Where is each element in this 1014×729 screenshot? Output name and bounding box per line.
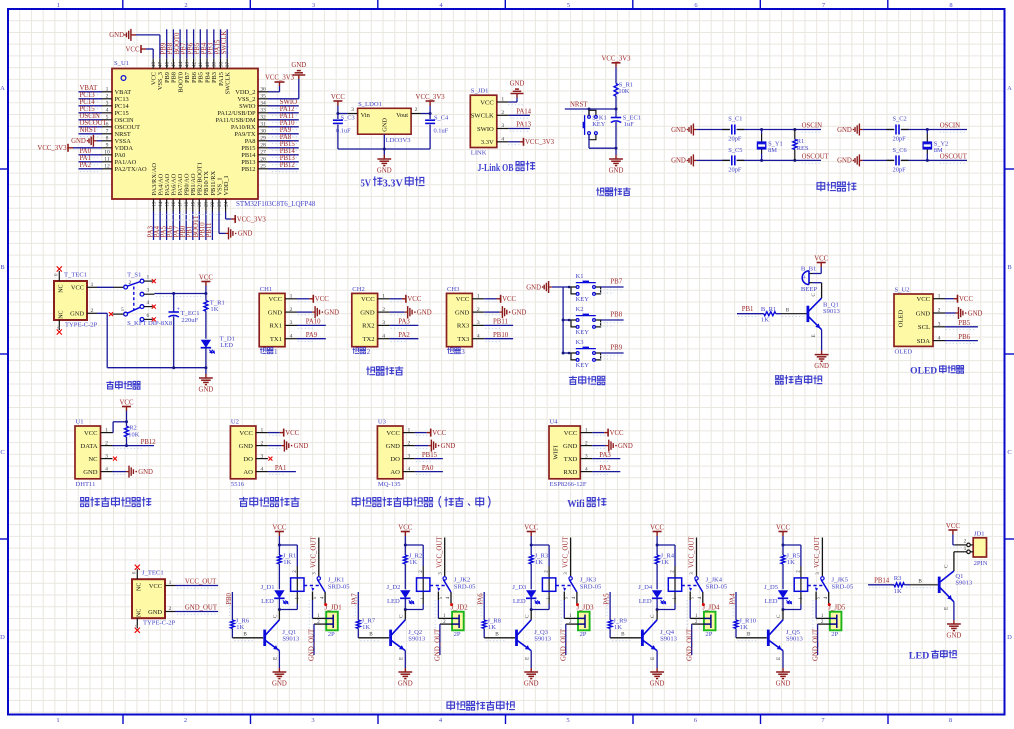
svg-text:22: 22 — [210, 201, 216, 207]
svg-text:1K: 1K — [535, 559, 543, 566]
svg-text:RES: RES — [797, 145, 809, 152]
svg-text:5: 5 — [121, 307, 124, 313]
svg-text:VCC: VCC — [959, 296, 973, 303]
svg-text:5V: 5V — [361, 178, 372, 190]
svg-text:7: 7 — [106, 129, 109, 135]
svg-text:VCC: VCC — [239, 430, 253, 437]
svg-text:E: E — [650, 657, 656, 660]
svg-text:GND: GND — [294, 443, 309, 450]
svg-text:42: 42 — [191, 62, 197, 68]
svg-text:2: 2 — [477, 307, 480, 313]
svg-text:S9013: S9013 — [955, 580, 973, 587]
svg-text:VCC_OUT: VCC_OUT — [311, 536, 318, 568]
svg-text:1K: 1K — [236, 624, 244, 631]
svg-text:VCC: VCC — [315, 296, 329, 303]
svg-text:LDO3V3: LDO3V3 — [386, 137, 412, 144]
svg-text:GND: GND — [71, 138, 86, 145]
svg-text:VCC_3V3: VCC_3V3 — [416, 94, 446, 101]
svg-text:34: 34 — [260, 101, 266, 107]
svg-text:DATA: DATA — [80, 443, 97, 450]
svg-text:PC15: PC15 — [80, 106, 96, 113]
svg-text:MQ-135: MQ-135 — [378, 481, 401, 488]
svg-text:E: E — [273, 657, 279, 660]
svg-text:NC: NC — [59, 284, 65, 292]
svg-text:J_TEC1: J_TEC1 — [142, 570, 164, 577]
svg-text:0.1uF: 0.1uF — [434, 128, 449, 135]
svg-text:40: 40 — [205, 62, 211, 68]
svg-text:3: 3 — [477, 320, 480, 326]
svg-text:3: 3 — [461, 348, 465, 356]
svg-text:E: E — [811, 334, 817, 337]
svg-text:4: 4 — [106, 108, 109, 114]
svg-text:PA0: PA0 — [115, 152, 126, 159]
svg-text:VCC: VCC — [650, 524, 664, 531]
svg-text:VCC: VCC — [564, 430, 578, 437]
svg-text:GND: GND — [671, 158, 686, 165]
svg-text:1: 1 — [274, 348, 278, 356]
svg-text:12: 12 — [104, 164, 110, 170]
svg-text:3: 3 — [106, 101, 109, 107]
svg-text:TX2: TX2 — [363, 336, 375, 343]
svg-text:1: 1 — [57, 2, 60, 9]
svg-text:GND: GND — [814, 363, 829, 370]
svg-text:43: 43 — [185, 62, 191, 68]
svg-text:PB13: PB13 — [280, 155, 296, 162]
svg-text:E: E — [524, 657, 530, 660]
svg-text:CH2: CH2 — [352, 286, 364, 293]
svg-text:32: 32 — [260, 115, 266, 121]
svg-text:GND: GND — [671, 127, 686, 134]
svg-text:VCC_3V3: VCC_3V3 — [237, 216, 267, 223]
svg-text:NRST: NRST — [80, 127, 98, 134]
svg-text:PB14: PB14 — [241, 152, 256, 159]
svg-text:U3: U3 — [378, 419, 387, 426]
svg-text:GND: GND — [83, 469, 98, 476]
svg-text:4: 4 — [261, 466, 264, 472]
svg-text:PA0: PA0 — [422, 465, 434, 472]
svg-text:PA11/USB/DM: PA11/USB/DM — [215, 117, 255, 124]
svg-text:20pF: 20pF — [728, 136, 742, 143]
svg-text:VDD_2: VDD_2 — [235, 89, 255, 96]
svg-text:S_KFT DIP-8X8: S_KFT DIP-8X8 — [127, 320, 173, 327]
svg-text:1: 1 — [408, 427, 411, 433]
svg-text:1K: 1K — [614, 624, 622, 631]
svg-text:2: 2 — [184, 2, 187, 9]
svg-text:PA2/TX/AO: PA2/TX/AO — [115, 166, 147, 173]
svg-text:PA14: PA14 — [516, 109, 531, 116]
svg-text:VDDA: VDDA — [115, 145, 134, 152]
svg-text:C: C — [776, 614, 782, 618]
svg-text:18: 18 — [184, 201, 190, 207]
svg-text:4: 4 — [147, 300, 150, 306]
svg-text:J_JD2: J_JD2 — [451, 604, 469, 611]
svg-text:PB8: PB8 — [610, 312, 622, 319]
svg-text:2P: 2P — [831, 631, 838, 638]
svg-text:2: 2 — [501, 110, 504, 116]
svg-text:VCC_3V3: VCC_3V3 — [265, 75, 295, 82]
svg-text:2: 2 — [261, 440, 264, 446]
svg-text:21: 21 — [204, 201, 210, 207]
svg-text:GND: GND — [837, 127, 852, 134]
svg-text:T_EC1: T_EC1 — [181, 310, 200, 317]
svg-text:PA1/AO: PA1/AO — [115, 159, 137, 166]
svg-text:1: 1 — [261, 427, 264, 433]
svg-text:GND: GND — [199, 386, 214, 393]
svg-text:PB10: PB10 — [493, 332, 509, 339]
svg-text:1K: 1K — [661, 559, 669, 566]
svg-text:1: 1 — [938, 293, 941, 299]
svg-text:GND: GND — [650, 680, 665, 687]
svg-text:AO: AO — [243, 469, 253, 476]
svg-text:45: 45 — [171, 62, 177, 68]
svg-text:15: 15 — [164, 201, 170, 207]
svg-text:GND_OUT: GND_OUT — [812, 628, 819, 661]
svg-text:B_R1: B_R1 — [761, 306, 776, 313]
svg-text:38: 38 — [218, 62, 224, 68]
svg-text:S_C5: S_C5 — [728, 147, 742, 154]
svg-text:2PIN: 2PIN — [974, 560, 988, 567]
svg-text:GND: GND — [148, 609, 162, 616]
svg-text:C: C — [943, 564, 949, 568]
svg-text:3: 3 — [351, 107, 354, 113]
svg-text:AO: AO — [390, 469, 400, 476]
svg-text:4: 4 — [408, 466, 411, 472]
svg-text:GND: GND — [510, 80, 525, 87]
svg-text:PB14: PB14 — [280, 148, 296, 155]
svg-text:VCC_3V3: VCC_3V3 — [601, 56, 631, 63]
svg-text:PA1: PA1 — [80, 155, 91, 162]
svg-text:OSCOUT: OSCOUT — [940, 154, 968, 161]
svg-text:J_D5: J_D5 — [764, 584, 779, 591]
svg-text:8: 8 — [106, 136, 109, 142]
svg-text:S_U2: S_U2 — [895, 287, 910, 294]
svg-text:5: 5 — [566, 717, 569, 724]
svg-text:PA2: PA2 — [80, 162, 92, 169]
svg-text:S_C3: S_C3 — [341, 114, 355, 121]
svg-text:VCC: VCC — [480, 99, 494, 106]
svg-text:J_D3: J_D3 — [512, 584, 527, 591]
svg-text:4: 4 — [938, 335, 941, 341]
svg-text:VCC_OUT: VCC_OUT — [814, 536, 821, 568]
svg-text:GND_OUT: GND_OUT — [435, 628, 442, 661]
svg-text:PB11: PB11 — [493, 319, 508, 326]
svg-text:PB13: PB13 — [241, 159, 255, 166]
svg-text:2P: 2P — [705, 631, 712, 638]
svg-text:SWCLK: SWCLK — [225, 72, 232, 95]
svg-text:J-Link OB: J-Link OB — [478, 162, 514, 174]
svg-text:3: 3 — [585, 453, 588, 459]
svg-text:2: 2 — [184, 717, 187, 724]
svg-text:VCC: VCC — [946, 523, 960, 530]
svg-text:14: 14 — [158, 201, 164, 207]
svg-text:5: 5 — [567, 2, 570, 9]
svg-text:31: 31 — [260, 122, 266, 128]
svg-text:PC15: PC15 — [115, 110, 129, 117]
svg-text:33: 33 — [260, 108, 266, 114]
svg-text:S_C2: S_C2 — [893, 116, 907, 123]
svg-text:4: 4 — [477, 333, 480, 339]
svg-text:S_C6: S_C6 — [893, 147, 907, 154]
svg-text:1K: 1K — [362, 624, 370, 631]
svg-text:VCC_3V3: VCC_3V3 — [37, 145, 67, 152]
svg-text:1: 1 — [105, 427, 108, 433]
svg-text:9: 9 — [106, 143, 109, 149]
svg-text:D: D — [0, 634, 5, 641]
svg-text:SDA: SDA — [917, 338, 930, 345]
svg-text:BEEP: BEEP — [801, 286, 817, 293]
svg-text:PB12: PB12 — [241, 166, 255, 173]
svg-text:U1: U1 — [76, 419, 84, 426]
svg-text:K2: K2 — [576, 306, 584, 313]
svg-text:J_JD4: J_JD4 — [702, 604, 720, 611]
svg-text:1K: 1K — [740, 624, 748, 631]
svg-text:VCC: VCC — [149, 583, 162, 590]
svg-text:GND: GND — [563, 443, 578, 450]
svg-text:6: 6 — [147, 313, 150, 319]
svg-text:STM32F103C8T6_LQFP48: STM32F103C8T6_LQFP48 — [236, 200, 316, 208]
svg-text:1K: 1K — [210, 306, 218, 313]
svg-text:2: 2 — [91, 308, 94, 314]
svg-text:2P: 2P — [580, 631, 587, 638]
svg-text:VCC_3V3: VCC_3V3 — [525, 139, 555, 146]
svg-text:PA12/USB/DP: PA12/USB/DP — [217, 110, 256, 117]
svg-text:13: 13 — [151, 201, 157, 207]
svg-text:J_JD5: J_JD5 — [828, 604, 846, 611]
svg-text:220uF: 220uF — [181, 317, 198, 324]
svg-text:GND_OUT: GND_OUT — [561, 628, 568, 661]
svg-text:VCC: VCC — [407, 296, 421, 303]
svg-text:PB14: PB14 — [874, 578, 890, 585]
svg-text:JD1: JD1 — [974, 530, 985, 537]
svg-text:35: 35 — [260, 94, 266, 100]
svg-text:1: 1 — [91, 282, 94, 288]
svg-text:1: 1 — [585, 427, 588, 433]
svg-text:3: 3 — [312, 2, 315, 9]
svg-text:CH3: CH3 — [447, 286, 460, 293]
svg-text:PA13: PA13 — [516, 122, 531, 129]
svg-text:GND: GND — [272, 680, 287, 687]
svg-text:TX3: TX3 — [457, 336, 470, 343]
svg-text:VCC: VCC — [285, 430, 299, 437]
svg-text:J_D1: J_D1 — [261, 584, 275, 591]
svg-text:4: 4 — [105, 466, 108, 472]
svg-text:LED: LED — [909, 652, 930, 662]
svg-text:1: 1 — [106, 87, 109, 93]
svg-text:GND: GND — [138, 469, 153, 476]
svg-text:OSCIN: OSCIN — [80, 113, 100, 120]
svg-text:VCC_OUT: VCC_OUT — [437, 536, 444, 568]
svg-text:GND: GND — [238, 231, 253, 238]
svg-text:36: 36 — [260, 87, 266, 93]
svg-text:41: 41 — [198, 62, 204, 68]
svg-text:B: B — [918, 579, 922, 585]
svg-text:J_JD3: J_JD3 — [577, 604, 595, 611]
svg-text:47: 47 — [158, 62, 164, 68]
svg-text:VCC: VCC — [916, 296, 930, 303]
svg-text:VCC: VCC — [331, 94, 345, 101]
svg-text:S9013: S9013 — [408, 636, 426, 643]
svg-text:VBAT: VBAT — [115, 89, 132, 96]
svg-text:GND: GND — [916, 310, 931, 317]
svg-text:VCC: VCC — [456, 296, 470, 303]
svg-text:3: 3 — [311, 717, 314, 724]
svg-text:1: 1 — [56, 717, 59, 724]
svg-text:8M: 8M — [934, 147, 943, 154]
svg-text:SWCLK: SWCLK — [471, 113, 494, 120]
svg-text:20pF: 20pF — [728, 166, 742, 173]
svg-text:GND: GND — [239, 443, 254, 450]
svg-text:SWIO: SWIO — [477, 126, 494, 133]
svg-text:1: 1 — [290, 294, 293, 300]
svg-text:PC14: PC14 — [80, 99, 96, 106]
svg-text:GND: GND — [776, 680, 791, 687]
svg-text:28: 28 — [260, 143, 266, 149]
svg-text:SRD-05: SRD-05 — [328, 583, 350, 590]
svg-text:3: 3 — [261, 453, 264, 459]
svg-text:ESP8266-12F: ESP8266-12F — [550, 481, 587, 488]
svg-text:CH1: CH1 — [260, 286, 272, 293]
svg-text:VCC: VCC — [502, 296, 516, 303]
svg-text:1K: 1K — [787, 559, 795, 566]
svg-text:GND: GND — [837, 158, 852, 165]
svg-text:2: 2 — [367, 348, 371, 356]
svg-text:37: 37 — [225, 62, 231, 68]
svg-text:SRD-05: SRD-05 — [580, 583, 602, 590]
svg-text:Vout: Vout — [396, 112, 408, 119]
svg-text:VCC: VCC — [84, 430, 98, 437]
svg-text:2: 2 — [415, 107, 418, 113]
svg-text:2P: 2P — [454, 631, 461, 638]
svg-text:2: 2 — [964, 539, 967, 545]
svg-text:PA2: PA2 — [398, 332, 410, 339]
svg-text:VCC: VCC — [610, 430, 624, 437]
svg-text:GND: GND — [609, 167, 624, 174]
svg-text:B_B1: B_B1 — [801, 265, 816, 272]
svg-text:RXD: RXD — [563, 469, 577, 476]
svg-text:1: 1 — [169, 580, 172, 586]
svg-text:NC: NC — [137, 583, 143, 591]
svg-text:1K: 1K — [409, 559, 417, 566]
svg-text:C: C — [1007, 449, 1011, 456]
svg-text:26: 26 — [260, 157, 266, 163]
svg-text:S9013: S9013 — [823, 308, 841, 315]
svg-text:E: E — [943, 607, 949, 610]
svg-text:PA3: PA3 — [398, 319, 410, 326]
svg-text:S9013: S9013 — [786, 636, 804, 643]
svg-text:TYPE-C-2P: TYPE-C-2P — [143, 620, 176, 627]
svg-text:GND: GND — [524, 680, 539, 687]
svg-text:KEY: KEY — [592, 121, 606, 128]
svg-text:PB15: PB15 — [280, 141, 296, 148]
svg-text:PB12: PB12 — [141, 439, 157, 446]
svg-text:C: C — [398, 614, 404, 618]
svg-text:10K: 10K — [618, 88, 629, 95]
svg-text:1K: 1K — [761, 317, 769, 324]
svg-text:LED: LED — [639, 598, 652, 605]
svg-text:2: 2 — [105, 440, 108, 446]
svg-text:GND: GND — [324, 309, 339, 316]
svg-text:1: 1 — [964, 546, 967, 552]
svg-text:T_TEC1: T_TEC1 — [64, 272, 87, 279]
svg-text:17: 17 — [178, 201, 184, 207]
svg-text:S_JD1: S_JD1 — [471, 88, 489, 95]
svg-text:GND: GND — [968, 310, 983, 317]
svg-text:PB6: PB6 — [958, 334, 970, 341]
svg-text:10: 10 — [104, 150, 110, 156]
svg-text:S_C4: S_C4 — [434, 114, 449, 121]
svg-text:VCC: VCC — [71, 285, 84, 292]
svg-text:NC: NC — [88, 456, 98, 463]
svg-text:NRST: NRST — [570, 101, 588, 108]
svg-text:LED: LED — [261, 598, 274, 605]
svg-text:DO: DO — [390, 456, 400, 463]
svg-text:B: B — [243, 631, 247, 637]
svg-text:GND: GND — [377, 167, 392, 174]
svg-text:1: 1 — [477, 294, 480, 300]
svg-text:27: 27 — [260, 150, 266, 156]
svg-text:1: 1 — [382, 294, 385, 300]
svg-text:LED: LED — [220, 342, 233, 349]
svg-text:OLED: OLED — [910, 366, 937, 376]
svg-text:VCC: VCC — [386, 430, 400, 437]
svg-text:S9013: S9013 — [282, 636, 300, 643]
svg-text:DO: DO — [243, 456, 253, 463]
svg-text:SRD-05: SRD-05 — [706, 583, 728, 590]
svg-text:B: B — [786, 308, 790, 314]
svg-text:3: 3 — [408, 453, 411, 459]
svg-text:1uF: 1uF — [624, 121, 634, 128]
svg-text:PB11: PB11 — [206, 223, 213, 238]
svg-text:20pF: 20pF — [893, 136, 907, 143]
svg-text:2: 2 — [938, 308, 941, 314]
svg-text:3: 3 — [290, 320, 293, 326]
svg-text:U4: U4 — [550, 419, 559, 426]
svg-text:PB9: PB9 — [610, 345, 622, 352]
svg-text:VSS_2: VSS_2 — [237, 96, 255, 103]
svg-text:GND: GND — [398, 680, 413, 687]
svg-text:3: 3 — [382, 320, 385, 326]
svg-text:PA10: PA10 — [280, 120, 295, 127]
svg-text:OSCOUT: OSCOUT — [80, 120, 108, 127]
svg-text:SRD-05: SRD-05 — [454, 583, 476, 590]
svg-text:C: C — [273, 614, 279, 618]
svg-text:8M: 8M — [768, 147, 777, 154]
svg-text:2: 2 — [408, 440, 411, 446]
svg-text:39: 39 — [212, 62, 218, 68]
svg-text:5516: 5516 — [231, 481, 245, 488]
svg-text:B: B — [369, 631, 373, 637]
svg-text:4: 4 — [501, 137, 504, 143]
svg-text:OLED: OLED — [895, 348, 913, 355]
svg-text:D: D — [1007, 634, 1012, 641]
svg-text:B: B — [0, 264, 5, 271]
svg-text:VCC: VCC — [361, 296, 375, 303]
svg-text:PB12: PB12 — [280, 162, 296, 169]
svg-text:PC13: PC13 — [80, 92, 96, 99]
svg-text:TYPE-C-2P: TYPE-C-2P — [65, 322, 98, 329]
svg-text:PC13: PC13 — [115, 96, 129, 103]
svg-text:VCC: VCC — [272, 524, 286, 531]
svg-text:Wifi: Wifi — [567, 498, 585, 510]
svg-text:SRD-05: SRD-05 — [832, 583, 854, 590]
svg-text:44: 44 — [178, 62, 184, 68]
svg-text:GND_OUT: GND_OUT — [686, 628, 693, 661]
svg-text:24: 24 — [223, 201, 229, 207]
svg-text:SWCLK: SWCLK — [221, 31, 228, 55]
svg-text:2: 2 — [585, 440, 588, 446]
svg-text:OSCOUT: OSCOUT — [115, 124, 141, 131]
svg-text:29: 29 — [260, 136, 266, 142]
